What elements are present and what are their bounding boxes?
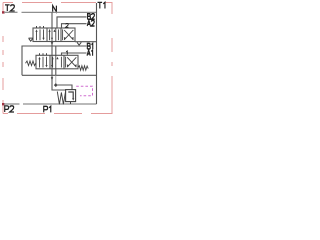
label valve V1 num (66, 23, 69, 27)
label T2 (5, 5, 15, 11)
valve V2 cell1 arrows (38, 57, 47, 68)
node P2 dot (2, 103, 5, 105)
label valve V2 num (66, 51, 67, 55)
label B2 (88, 14, 95, 20)
wire P feed down to relief inlet with arrow (52, 75, 66, 90)
valve V1 cell3 cross (63, 29, 74, 40)
valve V1 top stubs (37, 26, 44, 28)
valve V2 top stubs (40, 53, 47, 55)
valve V2 cell3 cross (66, 57, 77, 68)
envelope dashed border left (2, 3, 4, 114)
relief valve RV pilot dashed magenta (76, 86, 92, 96)
label N (53, 6, 57, 12)
relief valve RV spring (57, 92, 65, 105)
wire return line to right vertical (22, 74, 97, 76)
wire A1 line with corner (62, 53, 87, 55)
wire B2 line with corner (57, 17, 87, 28)
wire P rail P2 to right (4, 103, 20, 105)
valve V1 left lever (29, 38, 34, 41)
valve V2 cell2 marks (51, 55, 62, 69)
valve V2 left spring (26, 61, 37, 66)
relief valve RV box (66, 90, 76, 102)
relief valve RV inner path (68, 92, 73, 99)
valve V1 right lever (77, 42, 81, 45)
label P1 (44, 106, 51, 112)
node T2 dot (2, 11, 5, 13)
valve V2 right spring (78, 66, 88, 71)
valve V1 body (33, 28, 75, 42)
wire junctions B1 line to valve2 top (55, 46, 57, 55)
valve V1 cell1 arrows (35, 29, 44, 40)
wire valve1 down arrow to B1 line (51, 42, 53, 46)
wire T rail T2 to T1 (4, 11, 18, 13)
wire N vertical (51, 12, 53, 28)
wire pilot line to relief top (56, 85, 72, 90)
node junction dot (54, 83, 58, 87)
envelope dashed border top (3, 3, 113, 114)
label T1 (98, 2, 105, 8)
envelope dashed border right (111, 3, 113, 114)
wire valve2 bottom verticals (51, 69, 53, 76)
wire relief outlet stub (70, 102, 72, 104)
label B1 (87, 43, 92, 49)
wire pilot tap stub (55, 75, 57, 85)
valve V1 cell2 marks (49, 28, 59, 42)
wire T1 vertical right side (96, 3, 98, 104)
valve V2 body (36, 55, 78, 69)
label P2 (5, 106, 14, 112)
wire B1 long line with corner (22, 46, 87, 75)
wire valve1 lever line to right vertical (75, 41, 97, 43)
label A2 (87, 20, 94, 26)
wire A2 line with corner (62, 24, 87, 28)
label A1 (87, 50, 93, 56)
envelope dashed border bottom (3, 113, 113, 115)
